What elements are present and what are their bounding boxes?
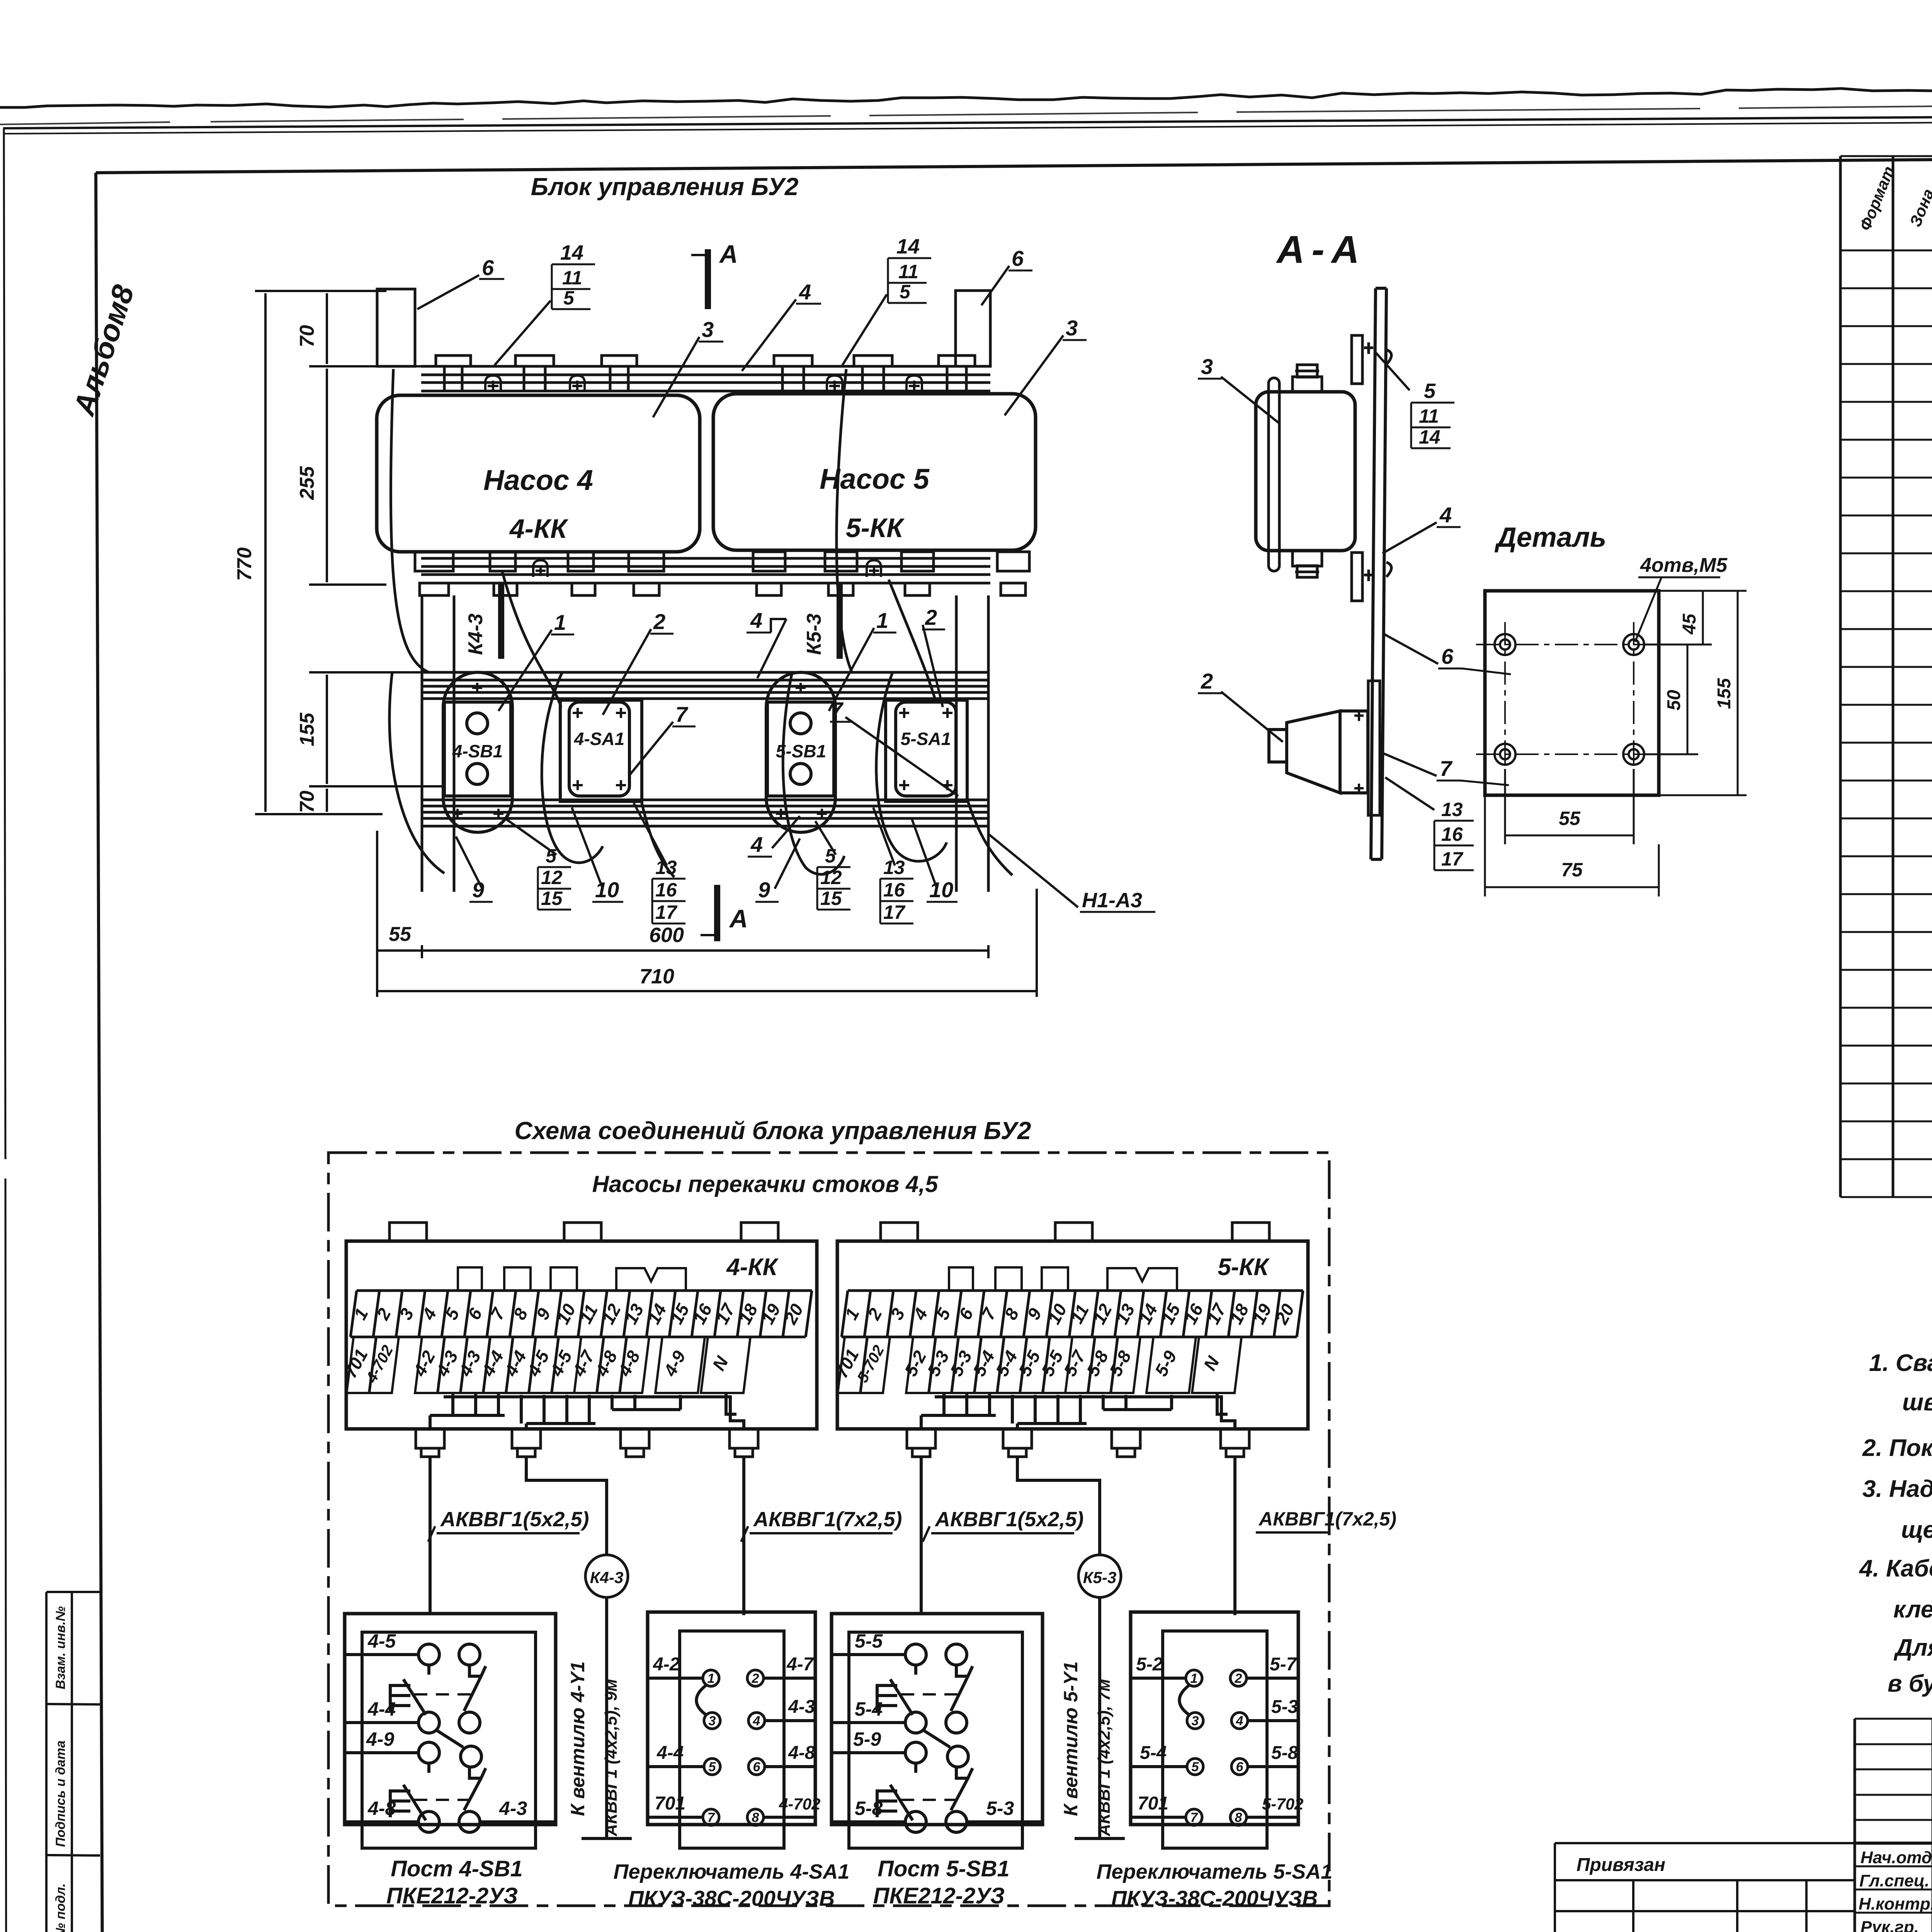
svg-text:А: А (719, 240, 738, 268)
callout 2 right (922, 605, 945, 707)
svg-text:5: 5 (563, 287, 575, 309)
callout 1 left (498, 610, 574, 711)
svg-text:5: 5 (1424, 379, 1436, 403)
svg-text:щему чертежу .: щему чертежу . (1901, 1517, 1932, 1543)
svg-text:70: 70 (296, 791, 318, 813)
svg-text:4-SA1: 4-SA1 (574, 729, 624, 749)
callout 6 section (1383, 634, 1511, 674)
svg-text:11: 11 (562, 267, 582, 289)
post right item6 (956, 291, 990, 366)
callout 3 left (653, 317, 723, 417)
svg-text:4-2: 4-2 (653, 1654, 680, 1675)
svg-text:Взам. инв.№: Взам. инв.№ (53, 1606, 68, 1689)
callout H1-A3 (989, 835, 1155, 912)
ladder 13-16-17 right (873, 808, 913, 923)
lower rail of upper part (421, 558, 990, 583)
page top border (3, 113, 1932, 128)
hole bottom-right (1623, 744, 1644, 765)
bracket lower (1352, 553, 1391, 601)
callout 4 section (1383, 503, 1461, 553)
svg-text:5: 5 (1192, 1760, 1199, 1774)
dim 75 detail (1485, 795, 1659, 896)
svg-text:2: 2 (653, 609, 665, 634)
svg-text:клеммным коробкам 4-КК, 5-КК ,: клеммным коробкам 4-КК, 5-КК , В МЭЗ (1893, 1596, 1932, 1623)
terminal box 5-КК (837, 1223, 1308, 1429)
detail plate item 7 (1485, 591, 1659, 795)
svg-text:5-3: 5-3 (1271, 1697, 1298, 1717)
posts lower continuation (422, 595, 988, 892)
top rail tabs (436, 355, 471, 366)
ladder 5-12-15 left (506, 819, 571, 910)
svg-text:А: А (729, 904, 748, 933)
svg-text:Нач.отд.: Нач.отд. (1861, 1848, 1932, 1867)
button post Пост 4-SB1 box (345, 1614, 556, 1848)
top rail profile (421, 366, 990, 391)
svg-text:701: 701 (1138, 1793, 1168, 1814)
svg-text:11: 11 (898, 261, 918, 282)
svg-text:5-7: 5-7 (1270, 1654, 1298, 1675)
svg-text:5-4: 5-4 (855, 1698, 883, 1720)
svg-text:12: 12 (820, 867, 842, 888)
svg-text:50: 50 (1664, 690, 1684, 711)
svg-text:А-А: А-А (1276, 228, 1366, 271)
cable to 5-SB1 (920, 1457, 923, 1615)
dim 50 (1644, 645, 1698, 754)
svg-text:4-3: 4-3 (788, 1697, 815, 1717)
title block grid (1555, 1719, 1932, 1932)
svg-text:5: 5 (546, 845, 557, 867)
callout 6 right (981, 246, 1032, 305)
svg-text:Насосы перекачки стоков 4,5: Насосы перекачки стоков 4,5 (592, 1171, 939, 1197)
svg-text:3: 3 (1066, 316, 1078, 340)
svg-text:7: 7 (831, 697, 844, 722)
svg-text:1: 1 (554, 610, 566, 634)
signature rows (1855, 1842, 1932, 1845)
svg-text:5-8: 5-8 (1271, 1743, 1298, 1763)
svg-text:4-КК: 4-КК (726, 1254, 779, 1281)
drawing frame (96, 154, 1932, 173)
label 4otv M5 (1635, 554, 1728, 641)
svg-text:8: 8 (1235, 1810, 1242, 1825)
mounting strip item 6 (section) (1371, 288, 1386, 859)
svg-text:3: 3 (1192, 1714, 1199, 1728)
svg-text:К5-3: К5-3 (803, 614, 825, 655)
mounting plate item 7 (section) (1368, 681, 1380, 815)
button post Пост 5-SB1 box (832, 1614, 1043, 1848)
svg-text:Переключатель 4-SA1: Переключатель 4-SA1 (614, 1860, 850, 1883)
svg-text:701: 701 (655, 1793, 685, 1814)
svg-text:15: 15 (541, 888, 563, 909)
svg-text:2: 2 (1201, 669, 1213, 693)
svg-text:5-3: 5-3 (986, 1798, 1014, 1819)
svg-text:Насос 4: Насос 4 (483, 464, 593, 496)
switch Переключатель 5-SA1 box (1131, 1612, 1298, 1848)
button post 4-SB1 (443, 672, 512, 832)
callout ladder 14-11-5 left (495, 241, 595, 365)
callout 4 top (742, 280, 821, 371)
callout 7 left (630, 702, 696, 775)
contacts Пост 4-SB1 (345, 1655, 556, 1822)
button post 5-SB1 (766, 672, 835, 832)
svg-text:14: 14 (560, 241, 583, 264)
svg-text:14: 14 (1419, 426, 1440, 448)
hole top-left (1495, 634, 1515, 655)
svg-text:5-КК: 5-КК (846, 513, 905, 543)
svg-text:4-7: 4-7 (786, 1654, 815, 1675)
bottom dims (377, 831, 1037, 997)
cable to 4-SB1 (429, 1457, 432, 1615)
svg-text:3: 3 (709, 1714, 716, 1728)
svg-text:1. Сварку производить электр: 1. Сварку производить электродами типа Э… (1869, 1350, 1932, 1376)
svg-text:4-4: 4-4 (656, 1743, 684, 1763)
svg-text:6: 6 (1012, 246, 1024, 270)
svg-text:155: 155 (296, 713, 318, 747)
terminal strip 5-КК (842, 1267, 1303, 1337)
svg-text:14: 14 (896, 235, 920, 258)
svg-text:5-2: 5-2 (1136, 1654, 1163, 1675)
svg-text:710: 710 (639, 965, 674, 988)
svg-text:10: 10 (929, 878, 953, 902)
svg-text:5-5: 5-5 (855, 1630, 883, 1652)
svg-text:ПКУЗ-38С-200ЧУЗВ: ПКУЗ-38С-200ЧУЗВ (1111, 1886, 1318, 1910)
svg-text:2: 2 (752, 1671, 759, 1686)
svg-text:5-4: 5-4 (1140, 1743, 1167, 1763)
callout 4 mid (747, 608, 786, 678)
svg-text:770: 770 (233, 548, 256, 581)
ladder 5-11-14 section (1376, 352, 1454, 448)
terminal box item 3 (section) (1256, 365, 1355, 577)
svg-text:4: 4 (750, 832, 763, 857)
callout 9 left (456, 837, 493, 902)
svg-text:Инв. № подл.: Инв. № подл. (53, 1883, 68, 1932)
svg-text:6: 6 (753, 1760, 761, 1774)
svg-text:АКВВГ1(5х2,5): АКВВГ1(5х2,5) (440, 1508, 589, 1531)
left margin boxes (46, 1592, 102, 1932)
svg-text:АКВВГ1(5х2,5): АКВВГ1(5х2,5) (934, 1508, 1083, 1531)
cable K5-3 to valve (1017, 1457, 1125, 1838)
faint dashed second edge (0, 99, 1932, 124)
svg-text:9: 9 (472, 878, 484, 902)
svg-text:55: 55 (1559, 808, 1581, 829)
signature column texts (1859, 1848, 1932, 1932)
svg-text:Схема соединений блока управле: Схема соединений блока управления БУ2 (514, 1117, 1031, 1145)
bracket upper (1352, 335, 1391, 384)
post left item6 (377, 289, 415, 366)
svg-text:12: 12 (541, 867, 563, 888)
svg-text:Н.контр.: Н.контр. (1859, 1895, 1932, 1913)
MEZ dash-dot boundary box (328, 1153, 1329, 1906)
callout 10 right (912, 819, 957, 902)
svg-text:4-4: 4-4 (367, 1698, 396, 1720)
switch item 2 (section) (1269, 711, 1368, 793)
svg-text:6: 6 (1236, 1760, 1244, 1774)
ladder 5-12-15 right (815, 821, 850, 910)
svg-text:10: 10 (595, 878, 619, 902)
svg-text:4-КК: 4-КК (509, 514, 569, 544)
svg-text:К4-3: К4-3 (590, 1568, 624, 1587)
svg-text:17: 17 (655, 901, 678, 923)
svg-text:5: 5 (900, 281, 911, 303)
terminal box 4-КК (346, 1223, 817, 1429)
cable K5-3 (837, 584, 843, 659)
svg-text:4-8: 4-8 (367, 1798, 396, 1819)
svg-text:1: 1 (1190, 1671, 1198, 1686)
cable marker K4-3 (585, 1555, 628, 1597)
svg-text:45: 45 (1679, 613, 1700, 635)
svg-text:17: 17 (1441, 848, 1464, 870)
svg-text:4. Кабели К4-3, К5-3 разделыва: 4. Кабели К4-3, К5-3 разделываются и под… (1859, 1555, 1932, 1582)
cable to 4-SA1 (742, 1457, 745, 1615)
svg-text:6: 6 (482, 255, 494, 280)
svg-text:2: 2 (925, 605, 937, 629)
svg-text:2: 2 (1235, 1671, 1242, 1686)
bolts lower rail (533, 560, 881, 577)
svg-text:15: 15 (820, 888, 842, 909)
cable marker K5-3 (1078, 1555, 1121, 1597)
svg-text:9: 9 (758, 878, 770, 902)
svg-text:ПКЕ212-2УЗ: ПКЕ212-2УЗ (873, 1883, 1005, 1908)
svg-text:3: 3 (1201, 354, 1213, 379)
terminal box Nasos5 5-KK (713, 394, 1036, 550)
callout 3 section (1198, 354, 1279, 423)
middle rail band upper (422, 672, 988, 699)
svg-text:4-9: 4-9 (366, 1728, 394, 1750)
svg-text:4: 4 (1439, 503, 1452, 527)
callout 2 left (603, 609, 673, 715)
svg-text:5-702: 5-702 (1262, 1795, 1303, 1813)
svg-text:АКВВГ1 (4х2,5), 7м: АКВВГ1 (4х2,5), 7м (1095, 1679, 1114, 1837)
svg-text:17: 17 (883, 901, 906, 923)
svg-text:К вентилю 5-Y1: К вентилю 5-Y1 (1060, 1662, 1082, 1816)
svg-text:600: 600 (649, 923, 684, 947)
svg-text:5-9: 5-9 (853, 1728, 881, 1750)
hole top-right (1623, 634, 1644, 655)
svg-text:4: 4 (750, 608, 762, 633)
callout 7 section (1382, 753, 1509, 785)
svg-text:1: 1 (707, 1671, 715, 1686)
svg-text:Привязан: Привязан (1577, 1855, 1665, 1875)
svg-text:К4-3: К4-3 (464, 614, 487, 655)
callout 10 left (572, 808, 623, 902)
ladder 13-16-17 left (634, 803, 685, 923)
svg-text:55: 55 (389, 923, 412, 946)
ladder 13-16-17 section (1385, 777, 1474, 870)
svg-text:7: 7 (1190, 1810, 1199, 1825)
svg-text:Переключатель 5-SA1: Переключатель 5-SA1 (1097, 1860, 1333, 1883)
svg-text:Пост 5-SB1: Пост 5-SB1 (878, 1856, 1010, 1881)
dim 770 line (255, 291, 386, 814)
svg-text:4: 4 (753, 1714, 760, 1728)
svg-text:ПКУЗ-38С-200ЧУЗВ: ПКУЗ-38С-200ЧУЗВ (628, 1886, 835, 1910)
svg-text:4: 4 (799, 280, 811, 304)
cable K4-3 (498, 584, 504, 659)
svg-text:4-702: 4-702 (779, 1795, 820, 1813)
svg-text:4-5: 4-5 (367, 1630, 396, 1652)
svg-text:АКВВГ1(7х2,5): АКВВГ1(7х2,5) (1258, 1508, 1396, 1530)
callout 1 right (829, 608, 896, 711)
svg-text:7: 7 (675, 702, 689, 726)
svg-text:8: 8 (752, 1810, 759, 1825)
upper revision grid (1855, 1719, 1932, 1820)
svg-text:4-8: 4-8 (788, 1743, 815, 1763)
svg-text:2. Покрытие : эмаль серая ПФ-1: 2. Покрытие : эмаль серая ПФ-115. ГОСТ 6… (1862, 1435, 1932, 1461)
switch contacts Переключатель 4-SA1 (648, 1678, 815, 1817)
svg-text:5-8: 5-8 (855, 1798, 883, 1819)
left page edge (4, 128, 6, 1932)
svg-text:155: 155 (1714, 678, 1735, 709)
dim 70-255-155-70 line (309, 294, 448, 811)
svg-text:4отв,М5: 4отв,М5 (1640, 554, 1728, 577)
top rail bolts (485, 376, 922, 392)
svg-text:Блок управления БУ2: Блок управления БУ2 (531, 173, 799, 201)
bottom cable glands 4-КК (416, 1429, 758, 1457)
middle rail band lower (422, 800, 988, 826)
freehand cable curves (389, 369, 1012, 877)
hole bottom-left (1495, 744, 1515, 765)
svg-text:16: 16 (1441, 823, 1463, 845)
terminal strip 4-КК (350, 1267, 812, 1337)
svg-text:Для транспортирования кабели К: Для транспортирования кабели К4-3,К5-3 с… (1893, 1634, 1932, 1661)
callout 3 right (1005, 316, 1087, 415)
left atttachment block (1555, 1843, 1855, 1932)
svg-text:70: 70 (296, 325, 318, 347)
callout 9 right (755, 838, 800, 902)
svg-text:4: 4 (1236, 1714, 1243, 1728)
svg-text:Подпись и дата: Подпись и дата (53, 1740, 68, 1847)
dim 55 detail (1505, 769, 1634, 844)
svg-text:7: 7 (707, 1810, 716, 1825)
svg-text:11: 11 (1419, 405, 1439, 427)
switch Переключатель 4-SA1 box (648, 1612, 815, 1848)
dim 45 (1644, 591, 1747, 645)
svg-text:16: 16 (655, 879, 677, 901)
svg-text:3. Надписи на электрооборудова: 3. Надписи на электрооборудовании выполн… (1862, 1476, 1932, 1502)
bottom cable glands 5-КК (907, 1429, 1249, 1457)
torn paper edge top (0, 82, 1932, 107)
svg-text:7: 7 (1440, 756, 1453, 781)
cable to 5-SA1 (1233, 1457, 1236, 1615)
section mark A top (692, 240, 738, 309)
svg-text:К5-3: К5-3 (1083, 1568, 1117, 1587)
parts table grid (1840, 156, 1932, 1197)
svg-text:75: 75 (1561, 859, 1583, 881)
collector wires 5-КК (921, 1393, 1235, 1430)
svg-text:5: 5 (825, 845, 836, 867)
svg-text:5: 5 (709, 1760, 716, 1774)
strip handle item (1269, 378, 1279, 571)
dim 155 (1659, 591, 1747, 795)
svg-text:6: 6 (1441, 644, 1454, 668)
switch contacts Переключатель 5-SA1 (1131, 1678, 1298, 1817)
collector wires 4-КК (430, 1393, 744, 1430)
svg-text:13: 13 (1441, 799, 1463, 820)
center lines (1476, 622, 1673, 777)
callout 2 section (1198, 669, 1283, 742)
callout 7 right (830, 697, 958, 796)
svg-text:3: 3 (702, 317, 714, 342)
technical notes (1859, 1350, 1932, 1697)
svg-text:16: 16 (883, 879, 905, 901)
callout ladder 14-11-5 right (842, 235, 931, 365)
callout 4 bottom rail (748, 816, 800, 857)
svg-text:АКВВГ1(7х2,5): АКВВГ1(7х2,5) (753, 1508, 902, 1531)
svg-text:ПКЕ212-2УЗ: ПКЕ212-2УЗ (386, 1883, 518, 1908)
svg-text:255: 255 (296, 466, 318, 500)
svg-text:13: 13 (655, 857, 677, 878)
svg-text:Пост 4-SB1: Пост 4-SB1 (391, 1856, 523, 1881)
svg-text:5-КК: 5-КК (1218, 1254, 1270, 1281)
lower rail tabs (415, 552, 453, 571)
callout 6 left (417, 255, 504, 309)
svg-text:АКВВГ1 (4х2,5), 9м: АКВВГ1 (4х2,5), 9м (602, 1679, 621, 1837)
svg-text:швом по контуру присоединения: швом по контуру присоединения деталей. (1902, 1389, 1932, 1416)
switch 4-SA1 (560, 700, 642, 801)
svg-text:Н1-А3: Н1-А3 (1082, 889, 1142, 912)
svg-text:Рук.гр.: Рук.гр. (1861, 1918, 1919, 1932)
svg-text:Гл.спец.: Гл.спец. (1859, 1871, 1929, 1890)
contacts Пост 5-SB1 (832, 1655, 1043, 1822)
svg-text:13: 13 (883, 857, 905, 878)
svg-text:Деталь: Деталь (1494, 522, 1607, 553)
svg-text:1: 1 (876, 608, 888, 633)
svg-text:5-SA1: 5-SA1 (901, 729, 951, 749)
switch 5-SA1 (886, 700, 967, 801)
svg-text:4-3: 4-3 (499, 1798, 527, 1819)
svg-text:в бухты и привязываются к блок: в бухты и привязываются к блоку БУ2 (1888, 1670, 1932, 1697)
terminal box Nasos4 4-KK (377, 395, 700, 552)
cable K4-3 to valve (526, 1457, 632, 1838)
svg-text:К вентилю 4-Y1: К вентилю 4-Y1 (567, 1662, 588, 1816)
section mark A bottom (701, 885, 748, 941)
svg-text:4-SB1: 4-SB1 (452, 741, 503, 761)
